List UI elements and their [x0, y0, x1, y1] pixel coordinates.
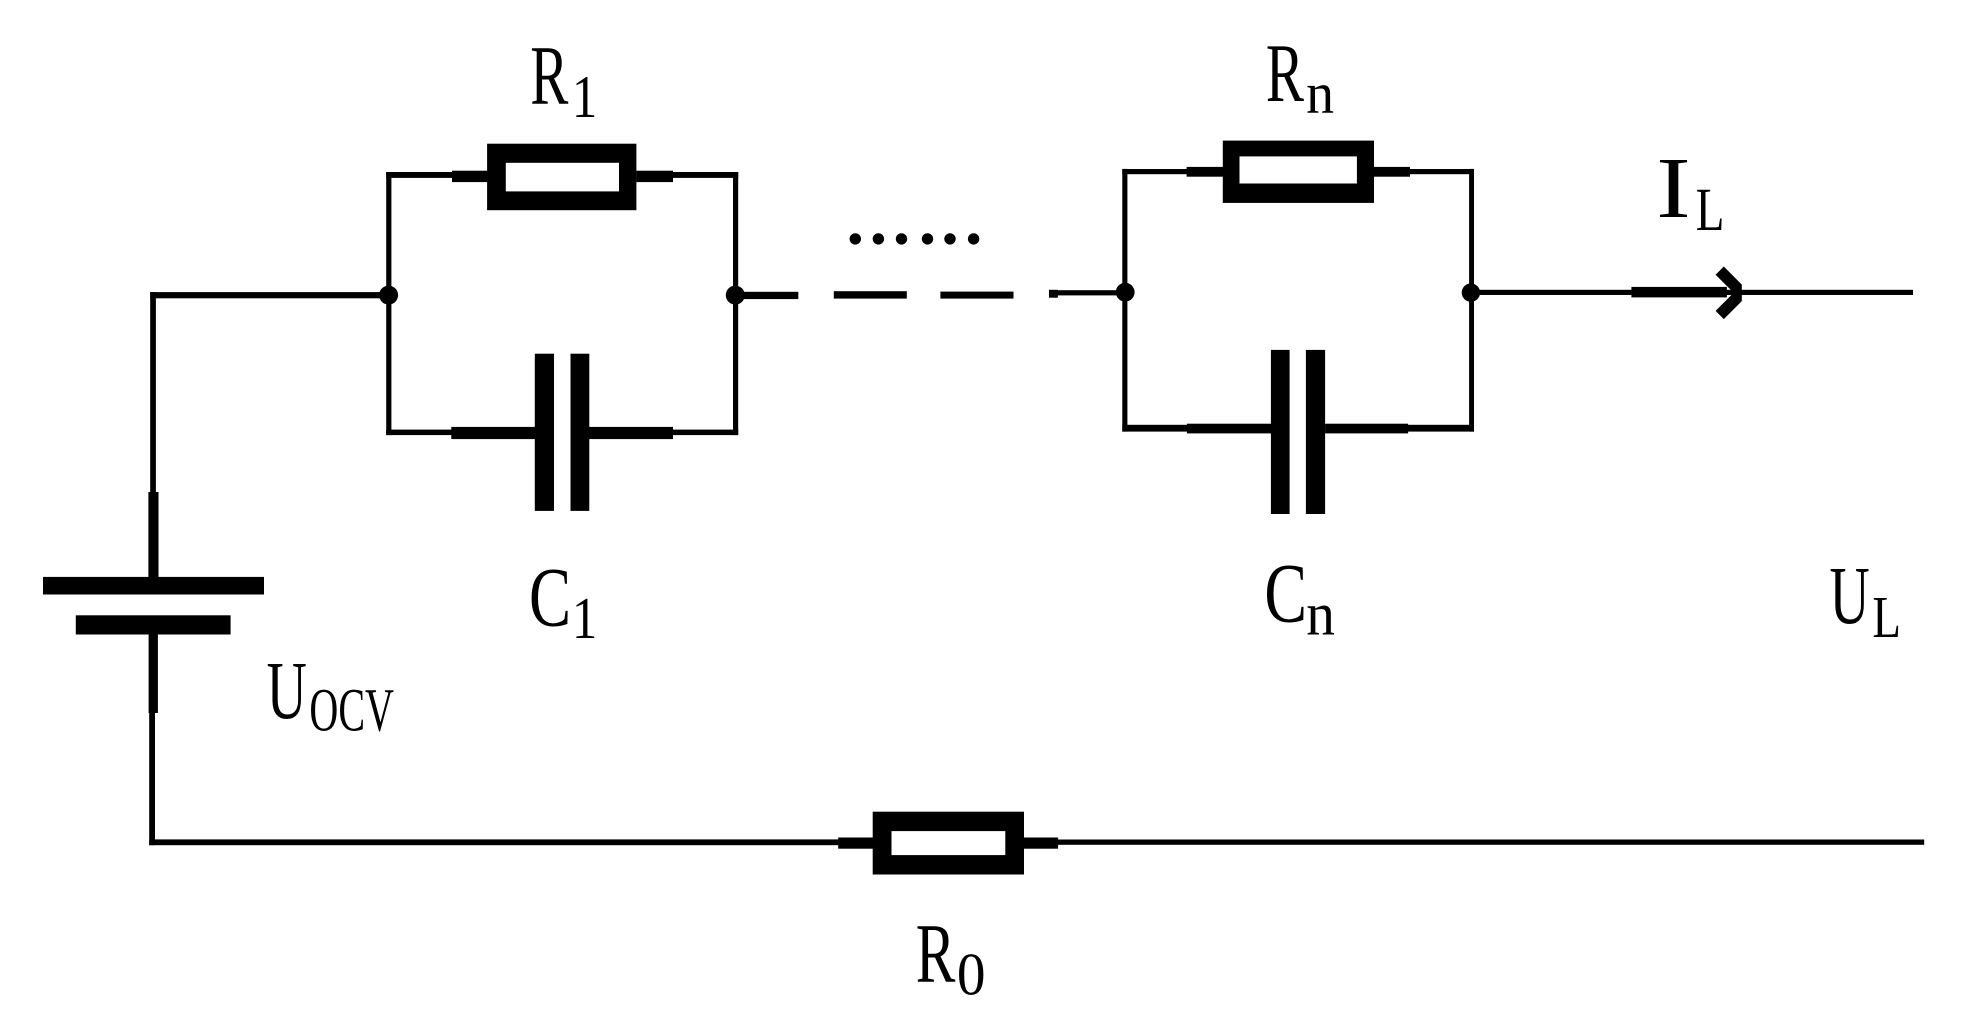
svg-text:0: 0: [957, 940, 986, 1008]
wire RC1 bottom rail left: [386, 430, 452, 436]
wire RC1 left vertical: [386, 172, 391, 435]
label R0: [916, 906, 986, 1007]
resistor Rn lead left: [1187, 167, 1224, 177]
arrow I_L head: [1716, 267, 1742, 320]
resistor R0 lead left: [838, 838, 874, 849]
resistor Rn: [1223, 141, 1374, 203]
ellipsis dots between RC stages: [850, 233, 980, 244]
svg-text:R: R: [530, 28, 569, 123]
resistor R1 lead right: [636, 171, 673, 182]
svg-text:n: n: [1306, 580, 1335, 648]
label C1: [529, 552, 597, 651]
wire RC1 bottom rail right: [672, 430, 738, 436]
resistor R1: [487, 144, 636, 211]
label U_L: [1829, 550, 1900, 650]
wire bottom bus left segment: [149, 839, 838, 845]
wire RC2 bottom rail right: [1408, 425, 1474, 432]
wire dash segment 3: [940, 292, 1013, 299]
capacitor Cn lead left: [1187, 424, 1272, 434]
svg-text:R: R: [1266, 27, 1304, 119]
capacitor Cn lead right: [1325, 424, 1408, 434]
wire dash segment 2: [834, 291, 907, 298]
wire RC2 top rail right: [1408, 169, 1474, 174]
wire RC2 left vertical: [1122, 169, 1127, 432]
resistor Rn lead right: [1374, 167, 1410, 177]
wire dash segment 4: [1049, 290, 1058, 298]
label R1: [530, 28, 597, 131]
wire battery positive lead up: [150, 292, 156, 492]
wire into node C: [1054, 290, 1118, 295]
svg-text:OCV: OCV: [309, 677, 394, 745]
svg-text:L: L: [1872, 584, 1901, 651]
node A (left junction of R1C1): [379, 286, 398, 305]
wire dash segment from node B: [741, 292, 798, 299]
svg-text:n: n: [1306, 62, 1334, 126]
resistor R0: [873, 812, 1024, 875]
svg-text:U: U: [267, 645, 307, 737]
wire RC2 right vertical: [1469, 169, 1474, 432]
label I_L: [1656, 140, 1724, 243]
wire RC1 top rail left: [386, 172, 487, 178]
wire battery negative lead down: [149, 713, 155, 846]
svg-text:1: 1: [572, 586, 597, 651]
capacitor C1 lead left: [451, 427, 535, 439]
battery U_OCV (voltage source): [43, 492, 264, 713]
svg-text:C: C: [529, 552, 571, 645]
svg-text:I: I: [1656, 140, 1690, 236]
svg-text:C: C: [1264, 547, 1307, 641]
wire RC1 top rail right: [670, 172, 738, 178]
label U_OCV: [267, 645, 394, 745]
node D (right junction of RnCn): [1462, 283, 1480, 301]
wire RC2 top rail left: [1122, 169, 1187, 174]
label Rn: [1266, 27, 1334, 125]
node C (left junction of RnCn): [1116, 283, 1135, 302]
svg-text:L: L: [1696, 175, 1725, 243]
svg-text:R: R: [916, 906, 956, 1000]
capacitor C1: [535, 354, 590, 511]
wire bottom bus right segment: [1058, 840, 1924, 845]
wire RC2 bottom rail left: [1122, 425, 1187, 432]
resistor R0 lead right: [1023, 838, 1058, 849]
label Cn: [1264, 547, 1335, 648]
arrow I_L shaft: [1631, 287, 1727, 298]
wire top bus from battery to node A: [150, 292, 388, 298]
capacitor Cn: [1271, 350, 1325, 514]
wire RC1 right vertical: [733, 172, 738, 435]
resistor R1 lead left: [452, 171, 488, 182]
svg-text:U: U: [1829, 550, 1869, 642]
svg-text:1: 1: [572, 64, 597, 131]
wire output to U_L terminal: [1478, 290, 1913, 295]
capacitor C1 lead right: [589, 427, 673, 439]
node B (right junction of R1C1): [726, 286, 745, 305]
